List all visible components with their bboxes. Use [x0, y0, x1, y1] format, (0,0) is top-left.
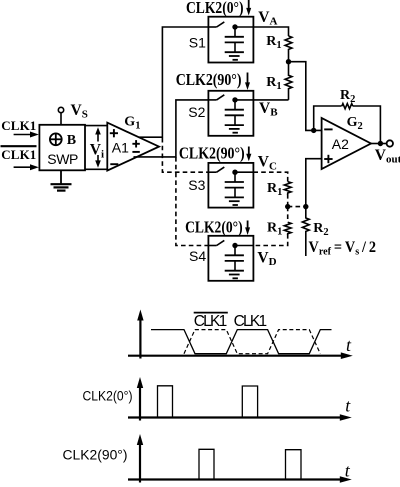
- svg-text:CLK2(90°): CLK2(90°): [176, 70, 242, 89]
- label CLK1bar input: [1, 146, 37, 162]
- node Vi arrow: [90, 127, 106, 168]
- wire dashed junction link: [288, 206, 306, 208]
- waveform 3 y-axis: [137, 434, 143, 483]
- capacitor S4: [225, 246, 244, 271]
- waveform 1 y-axis: [137, 310, 143, 359]
- wire SWP to A1 bottom: [85, 168, 107, 170]
- wire VB to R1: [253, 99, 288, 101]
- ground S2: [225, 125, 244, 133]
- wire feedback right: [353, 106, 381, 143]
- pin A1 minus input: [110, 163, 118, 165]
- svg-text:A2: A2: [332, 136, 349, 152]
- pin A2 minus: [324, 128, 332, 130]
- wire VA to R1: [253, 27, 288, 36]
- pin A1 plus output: [132, 140, 139, 147]
- waveform 2 y-axis: [137, 377, 143, 421]
- resistor R2 bottom: [302, 207, 309, 256]
- wire clock arrow S4: [245, 221, 250, 236]
- svg-text:CLK1: CLK1: [1, 147, 36, 162]
- svg-text:S4: S4: [189, 248, 206, 264]
- svg-text:S3: S3: [188, 177, 205, 193]
- ground S1: [225, 52, 244, 60]
- resistor R2 feedback: [342, 104, 353, 109]
- switch S2: [208, 95, 253, 103]
- wire junction to A2 minus: [289, 62, 322, 131]
- waveform CLK2(90) pulse 2: [286, 450, 302, 480]
- node R1R1 junction: [286, 59, 291, 64]
- wire clock arrow S3: [246, 147, 251, 162]
- wire VC dashed: [253, 172, 287, 181]
- resistor R1 c: [284, 182, 291, 195]
- node VS terminal: [58, 107, 63, 125]
- switch box S3: [208, 163, 253, 208]
- svg-text:CLK2(0°): CLK2(0°): [186, 0, 244, 17]
- wire CLK1 arrow: [14, 132, 39, 138]
- waveform CLK2(0) pulse 1: [158, 386, 173, 418]
- op-amp A2: [322, 118, 371, 169]
- waveform CLK1 solid: [151, 330, 332, 354]
- waveform CLK1bar dashed: [184, 330, 320, 354]
- capacitor S1: [225, 27, 244, 52]
- wire junction to R1 d dashed: [287, 207, 289, 223]
- xor symbol: [50, 133, 62, 145]
- switch S3: [208, 167, 253, 175]
- wire dashed to S4: [176, 157, 209, 246]
- svg-text:CLK2(0°): CLK2(0°): [185, 218, 243, 237]
- ground S3: [225, 197, 244, 205]
- svg-text:B: B: [67, 133, 76, 148]
- waveform 2 x-axis: [128, 414, 352, 421]
- waveform CLK2(0) pulse 2: [242, 386, 257, 418]
- svg-text:S2: S2: [188, 104, 205, 120]
- svg-text:CLK1: CLK1: [194, 313, 228, 330]
- node A2 plus junction: [303, 204, 308, 209]
- wire R1c to junction dashed: [287, 194, 289, 207]
- swp block B: [39, 125, 85, 171]
- pin A1 plus input: [110, 129, 118, 137]
- wire dashed to S3: [162, 138, 208, 172]
- switch box S4: [208, 236, 253, 281]
- node VC VD junction: [285, 204, 290, 209]
- switch S1: [208, 22, 253, 30]
- node Vout terminal: [387, 140, 393, 146]
- wire A1 minus output: [134, 100, 209, 157]
- svg-text:CLK2(0°): CLK2(0°): [83, 388, 133, 403]
- svg-text:Vref = Vs / 2: Vref = Vs / 2: [309, 239, 377, 258]
- svg-text:A1: A1: [112, 140, 129, 156]
- svg-text:CLK1: CLK1: [234, 313, 268, 330]
- switch box S2: [208, 91, 253, 136]
- op-amp A1: [107, 123, 159, 171]
- node output junction: [378, 141, 383, 146]
- wire A1 plus output: [139, 27, 208, 137]
- label CLK1bar: [194, 313, 228, 330]
- wire VD dashed: [253, 234, 287, 246]
- capacitor S2: [225, 100, 244, 125]
- pin A1 minus output: [132, 151, 139, 153]
- wire SWP to A1 top: [85, 125, 107, 127]
- ground under SWP: [51, 170, 72, 190]
- ground S4: [225, 271, 244, 279]
- waveform 1 x-axis: [128, 352, 353, 359]
- switch S4: [208, 240, 253, 248]
- waveform 3 x-axis: [128, 476, 352, 483]
- resistor R1 top: [285, 36, 292, 62]
- svg-text:S1: S1: [189, 34, 206, 50]
- resistor R1 d: [284, 222, 291, 235]
- svg-text:CLK1: CLK1: [1, 118, 36, 133]
- svg-text:CLK2(90°): CLK2(90°): [179, 144, 245, 163]
- node feedback tap: [311, 128, 316, 133]
- switch box S1: [208, 17, 253, 63]
- wire A2 output: [371, 143, 387, 145]
- resistor R1 second: [285, 62, 292, 100]
- waveform CLK2(90) pulse 1: [199, 449, 214, 479]
- wire clock arrow S1: [246, 0, 251, 16]
- pin A2 plus: [324, 155, 332, 163]
- svg-text:CLK2(90°): CLK2(90°): [63, 448, 128, 463]
- wire A2 plus input: [306, 159, 322, 207]
- wire feedback left: [314, 106, 342, 130]
- svg-text:SWP: SWP: [47, 151, 78, 167]
- wire clock arrow S2: [245, 73, 250, 91]
- capacitor S3: [225, 172, 244, 197]
- wire CLK1bar arrow: [14, 164, 39, 170]
